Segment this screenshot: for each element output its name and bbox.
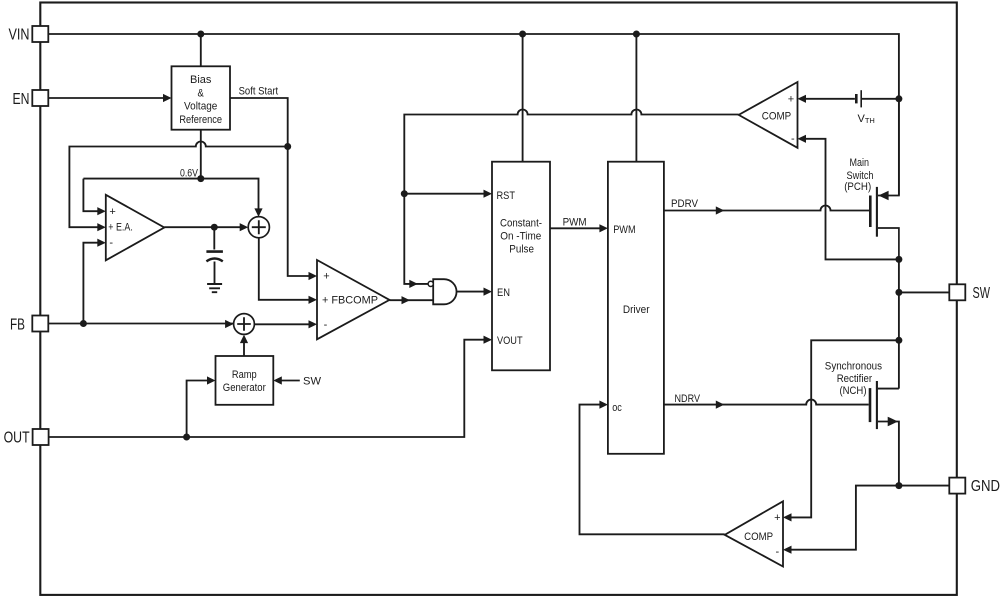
wire OUT rail (49, 340, 484, 437)
wire NDRV: driver to rectifier gate with hop (664, 400, 869, 405)
svg-text:-: - (109, 237, 113, 249)
svg-text:-: - (775, 546, 779, 558)
svg-text:Driver: Driver (623, 304, 650, 316)
wire AND output to EN input (457, 291, 484, 293)
svg-text:VOUT: VOUT (497, 335, 523, 347)
svg-text:-: - (324, 319, 328, 331)
pin GND (949, 478, 965, 494)
arrow into EA top + input (97, 207, 106, 215)
wire summer S2 output to FBCOMP - input (254, 323, 309, 325)
svg-text:Bias: Bias (190, 74, 212, 86)
node NCH drain branch junction (895, 337, 902, 344)
node EA output / compensation cap (211, 224, 218, 231)
wire EN to Bias (48, 97, 163, 99)
arrow into COMP1 - input (798, 135, 807, 143)
wire VIN to Bias box (200, 34, 202, 66)
svg-text:COMP: COMP (762, 110, 791, 122)
arrow into COMP2 + input (783, 513, 792, 521)
op-amp COMP1 top comparator (739, 82, 798, 148)
svg-text:Synchronous: Synchronous (825, 360, 883, 372)
capacitor C1 top plate (206, 250, 223, 253)
arrow EN into Bias (163, 94, 172, 102)
svg-text:oc: oc (612, 402, 622, 414)
block Bias & Voltage Reference (172, 66, 231, 129)
svg-text:+: + (323, 271, 329, 283)
wire RST net: comparator output rail with hops, down to RST and AND top input (404, 110, 738, 284)
svg-text:Ramp: Ramp (232, 369, 257, 381)
block Driver (608, 162, 664, 454)
svg-text:Main: Main (850, 157, 870, 169)
op-amp EA error amplifier (106, 195, 165, 260)
wire COMP1 - input to SW node (806, 139, 896, 260)
wire FBCOMP output to AND gate lower input (390, 299, 434, 301)
node RST branch junction (401, 190, 408, 197)
svg-text:+: + (109, 206, 115, 218)
transistor Q1 drain stub (878, 99, 899, 196)
wire GND rail to COMP2 - input (791, 486, 899, 550)
wire Bias bottom to 0.6V node (200, 130, 202, 179)
wire VIN to Driver box top (635, 34, 637, 162)
wire VIN to COT box top (522, 34, 524, 162)
svg-text:Generator: Generator (223, 382, 266, 394)
node SW pin junction (895, 289, 902, 296)
svg-text:GND: GND (971, 478, 1000, 495)
svg-text:Voltage: Voltage (184, 101, 217, 113)
svg-text:COMP: COMP (744, 531, 773, 543)
svg-text:&: & (198, 87, 205, 99)
arrow on FBCOMP output (402, 296, 411, 304)
arrow RST into COT box (484, 190, 493, 198)
pin SW (949, 284, 965, 300)
pin FB (32, 316, 48, 332)
svg-text:+ FBCOMP: + FBCOMP (322, 295, 378, 307)
arrow into COMP1 + input (798, 95, 807, 103)
transistor Q2 source stub (878, 422, 899, 486)
node VIN-COT junction (519, 31, 526, 38)
op-amp COMP2 bottom comparator (725, 501, 783, 566)
wire FB to EA - input (83, 243, 97, 324)
arrow PWM into Driver (599, 224, 608, 232)
wire SW pin connection (898, 259, 900, 388)
svg-text:PDRV: PDRV (671, 198, 699, 210)
arrow Soft Start into FBCOMP + (309, 272, 318, 280)
wire FB rail to summer S2 (48, 323, 233, 325)
AND gate U1 body (433, 279, 456, 304)
arrow into FBCOMP - input (309, 320, 318, 328)
arrow into FBCOMP middle + input (309, 296, 318, 304)
svg-text:On -Time: On -Time (500, 231, 541, 243)
svg-text:EN: EN (13, 91, 30, 108)
svg-text:PWM: PWM (613, 224, 635, 236)
svg-text:(PCH): (PCH) (844, 181, 871, 193)
wire Soft Start: Bias right to FBCOMP + input (230, 98, 309, 276)
node COMP1 minus / SW junction (895, 256, 902, 263)
svg-text:VIN: VIN (9, 27, 30, 44)
node NCH source / GND junction (895, 482, 902, 489)
node OUT / ramp junction (183, 434, 190, 441)
summer S2 plus cross (237, 317, 251, 331)
svg-text:RST: RST (497, 190, 516, 202)
node soft-start / EA+ junction (284, 143, 291, 150)
arrow FB into summer S2 (225, 320, 234, 328)
arrow on NDRV wire (716, 401, 725, 409)
arrow ramp into summer S2 bottom (240, 335, 248, 344)
wire EA output to summer S1 (164, 226, 240, 228)
svg-text:Reference: Reference (179, 114, 222, 126)
transistor Q1 source stub (878, 228, 899, 259)
arrow PCH drain pointing into channel (878, 191, 888, 201)
transistor Q2 synchronous rectifier NCH gate bar (869, 388, 872, 422)
battery VTH long plate (860, 90, 862, 107)
block Ramp Generator (216, 356, 274, 405)
svg-text:Constant-: Constant- (500, 218, 542, 230)
wire NCH drain branch to COMP2 + input (791, 340, 899, 517)
svg-text:0.6V: 0.6V (180, 167, 199, 179)
svg-text:SW: SW (973, 285, 991, 302)
svg-text:NDRV: NDRV (675, 393, 701, 405)
battery VTH short plate (855, 94, 858, 103)
svg-text:Soft Start: Soft Start (239, 85, 279, 97)
inverting bubble on AND gate top input (428, 281, 433, 286)
wire oc: comparator COMP2 output to driver oc input (580, 405, 725, 535)
svg-text:Rectifier: Rectifier (837, 373, 873, 385)
svg-text:+ E.A.: + E.A. (108, 222, 133, 234)
arrow into ramp generator left side (207, 376, 216, 384)
svg-text:VTH: VTH (858, 113, 875, 125)
svg-text:Pulse: Pulse (509, 244, 534, 256)
wire 0.6V rail (83, 179, 258, 209)
summer S2 circle (234, 314, 255, 335)
pin OUT (33, 429, 49, 445)
node battery / VIN vertical junction (895, 95, 902, 102)
summer S1 circle (248, 217, 269, 238)
op-amp FBCOMP comparator (317, 260, 390, 339)
summer S1 plus cross (252, 220, 266, 234)
node VIN-driver junction (633, 31, 640, 38)
svg-text:(NCH): (NCH) (840, 385, 867, 397)
wire SW into ramp generator (281, 380, 300, 382)
transistor Q1 main switch PCH gate bar (869, 196, 872, 228)
arrow VOUT into COT box (484, 336, 493, 344)
wire OUT to ramp generator left input (187, 381, 208, 438)
wire 0.6V down to EA top + input (83, 179, 97, 212)
wire to RST input (404, 193, 484, 195)
wire ramp generator output up to summer S2 (243, 343, 245, 356)
wire COMP1 + input to battery (806, 98, 855, 100)
wire PDRV: driver to main switch gate with hop (664, 206, 869, 211)
wire EA top-plus feed with hop over bias wire (69, 142, 287, 228)
arrow NCH source pointing away from channel (888, 417, 898, 427)
wire VIN top rail (48, 34, 899, 196)
svg-text:Switch: Switch (847, 170, 874, 182)
node VIN-bias junction (197, 31, 204, 38)
wire battery to VIN branch (861, 98, 899, 100)
wire GND rail to pin (899, 485, 949, 487)
svg-text:SW: SW (303, 376, 322, 388)
arrow 0.6V into summer S1 top (254, 208, 262, 217)
transistor Q2 channel bar (876, 381, 878, 429)
svg-text:+: + (774, 512, 780, 524)
svg-text:+: + (788, 93, 794, 105)
block Constant-On-Time Pulse (492, 162, 550, 371)
node FB junction (80, 320, 87, 327)
arrow AND output into EN (484, 288, 493, 296)
arrow on PDRV wire (716, 206, 725, 214)
arrow SW into ramp generator right side (273, 376, 282, 384)
capacitor C1 curved bottom plate (206, 259, 222, 262)
svg-text:EN: EN (497, 287, 510, 299)
arrow on AND gate top input (409, 280, 418, 288)
svg-text:-: - (791, 133, 795, 145)
arrow EA output into summer S1 (240, 223, 249, 231)
arrow oc into Driver (599, 401, 608, 409)
pin VIN (32, 26, 48, 42)
wire to SW pin (899, 291, 949, 293)
pin EN (32, 90, 48, 106)
wire summer S1 output to FBCOMP middle + input (259, 238, 310, 300)
transistor Q1 channel bar (876, 187, 878, 237)
arrow into EA middle + input (97, 223, 106, 231)
transistor Q2 drain stub (878, 388, 899, 390)
wire capacitor to ground (214, 262, 216, 284)
node 0.6V (197, 175, 204, 182)
svg-text:PWM: PWM (563, 217, 587, 229)
arrow into EA - input (97, 239, 106, 247)
wire down to compensation capacitor (213, 227, 215, 249)
svg-text:FB: FB (10, 316, 25, 333)
svg-text:OUT: OUT (4, 429, 30, 446)
wire PWM from COT to Driver (550, 227, 600, 229)
arrow into COMP2 - input (783, 546, 792, 554)
ground symbol below C1 (207, 284, 222, 292)
